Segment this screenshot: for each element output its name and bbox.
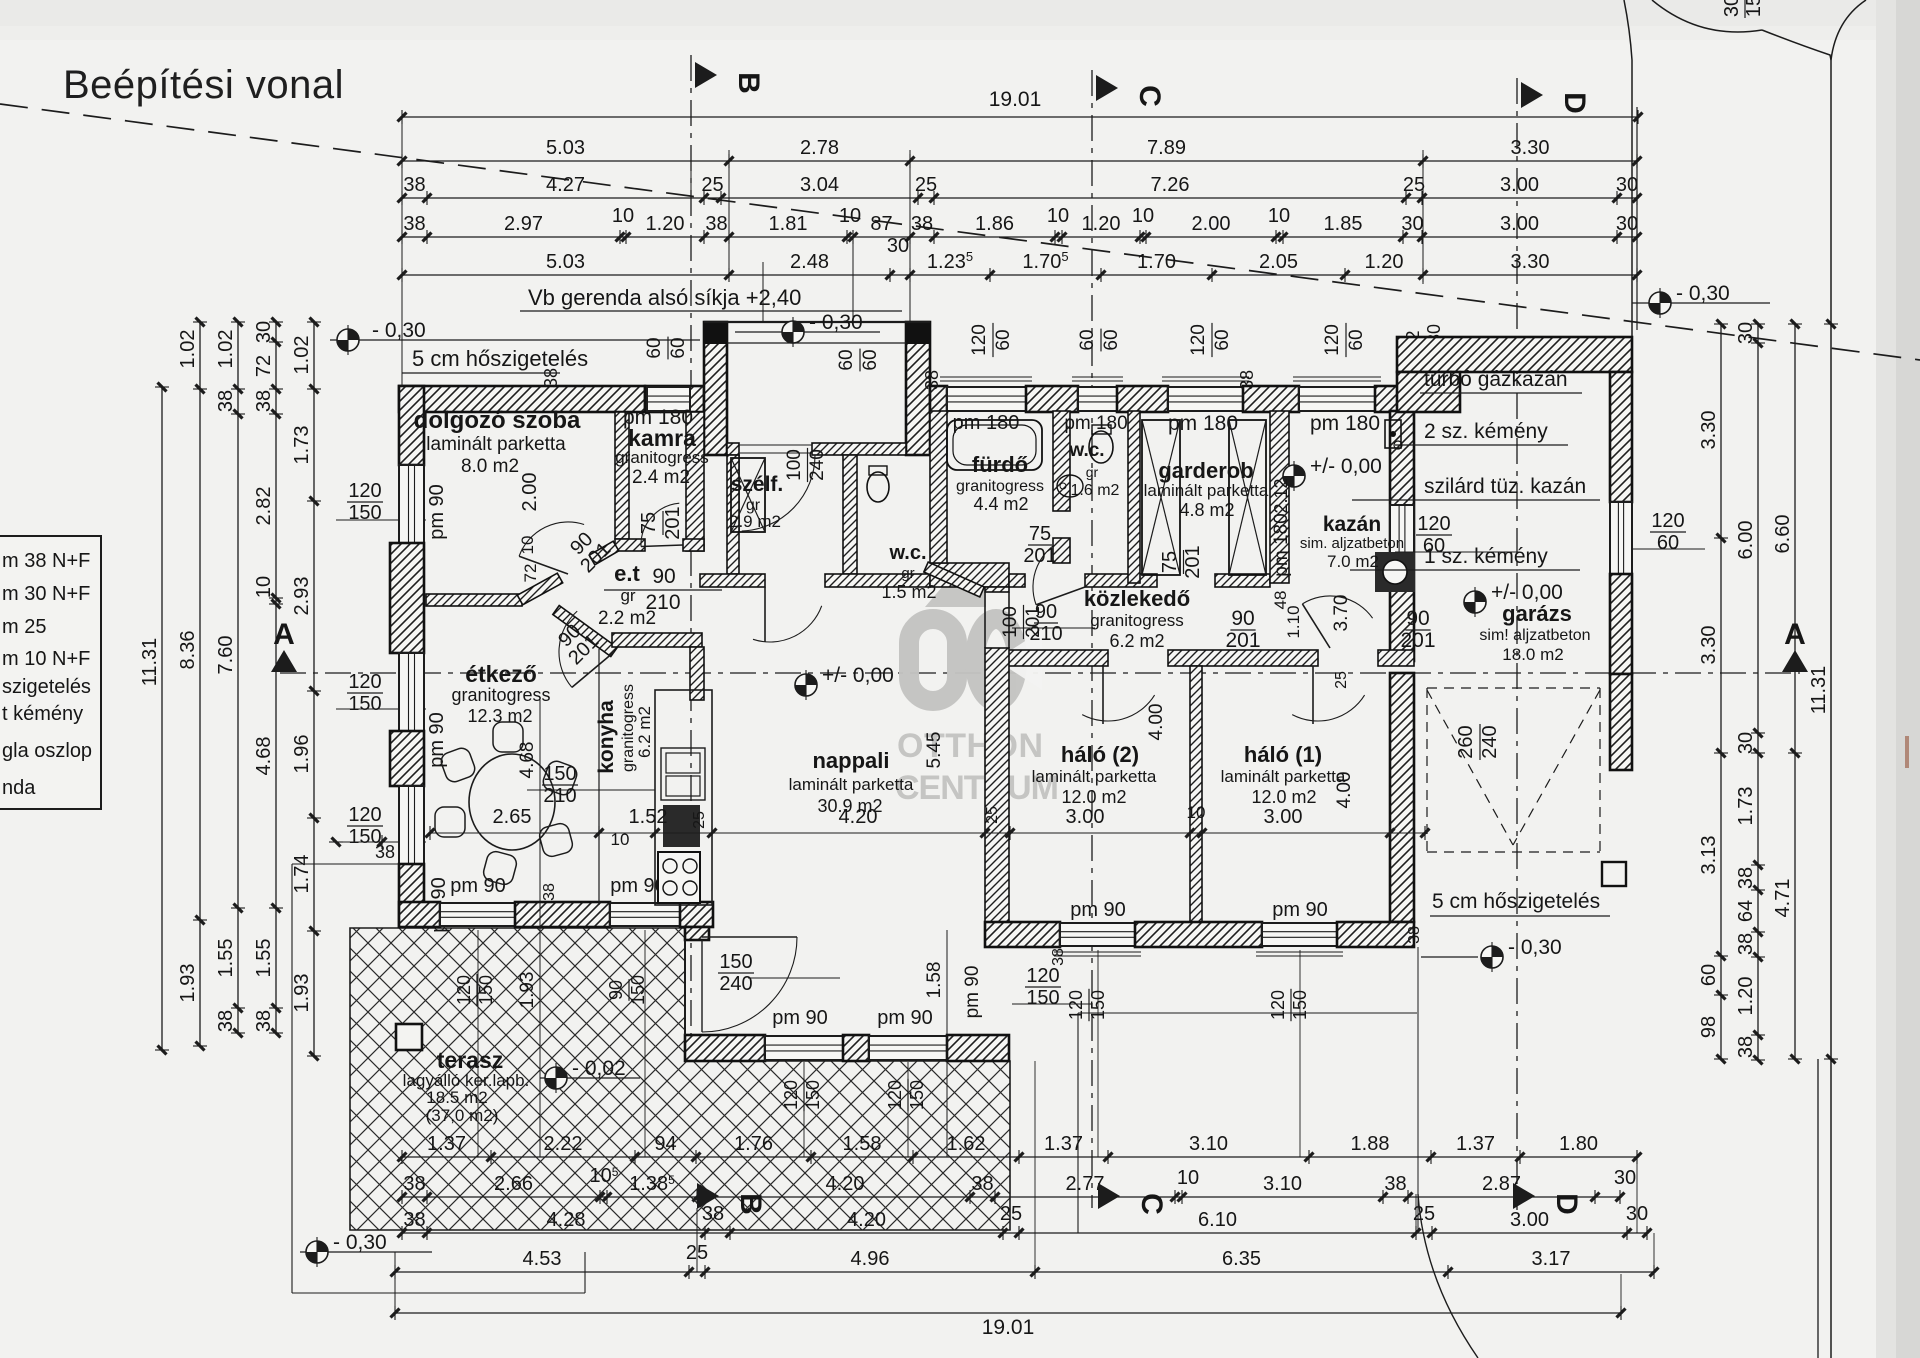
svg-text:2.00: 2.00 <box>1192 213 1231 235</box>
bottom dimension row 2 <box>402 1196 1620 1198</box>
svg-text:sim! aljzatbeton: sim! aljzatbeton <box>1479 627 1590 644</box>
svg-text:garázs: garázs <box>1502 601 1572 626</box>
fürdő - wc partition <box>1053 411 1070 511</box>
svg-text:+/- 0,00: +/- 0,00 <box>822 664 894 687</box>
svg-text:gr: gr <box>620 586 635 605</box>
svg-text:10: 10 <box>1268 205 1290 227</box>
right long boundary line <box>1830 60 1832 1358</box>
svg-text:étkező: étkező <box>465 661 537 687</box>
svg-text:10: 10 <box>1187 803 1206 822</box>
svg-text:120: 120 <box>348 671 381 693</box>
garage east wall upper <box>1610 372 1632 502</box>
etkezo height dim 4.68 <box>539 700 541 1157</box>
svg-text:laminált parketta: laminált parketta <box>789 775 914 794</box>
svg-text:+/- 0,00: +/- 0,00 <box>1491 581 1563 604</box>
svg-text:pm 90: pm 90 <box>962 966 983 1019</box>
svg-text:94: 94 <box>654 1133 676 1155</box>
svg-text:60: 60 <box>1346 329 1367 350</box>
svg-text:dolgozó szoba: dolgozó szoba <box>414 407 581 434</box>
garage south-east corner cap <box>1602 862 1626 886</box>
svg-text:201: 201 <box>1225 629 1260 652</box>
svg-text:25: 25 <box>1403 174 1425 196</box>
road curve top right 2 <box>1762 30 1831 60</box>
svg-text:nappali: nappali <box>812 748 889 773</box>
svg-text:pm 180: pm 180 <box>1310 412 1380 435</box>
level marker -0.30 backyard <box>1421 956 1478 958</box>
svg-text:pm 180: pm 180 <box>1064 413 1127 434</box>
svg-text:3.13: 3.13 <box>1698 836 1720 875</box>
level marker 0.00 nappali <box>795 674 817 696</box>
svg-text:1.37: 1.37 <box>1044 1133 1083 1155</box>
svg-text:4.53: 4.53 <box>523 1248 562 1270</box>
svg-text:OTTHON: OTTHON <box>897 727 1044 765</box>
road curve top right 1 <box>1652 0 1762 32</box>
svg-text:1.86: 1.86 <box>975 213 1014 235</box>
svg-text:w.c.: w.c. <box>888 542 926 564</box>
svg-text:1.70: 1.70 <box>1137 251 1176 273</box>
svg-text:D: D <box>1550 1193 1583 1215</box>
svg-text:150: 150 <box>1026 987 1059 1009</box>
svg-text:B: B <box>734 1193 767 1215</box>
svg-text:10: 10 <box>253 576 275 598</box>
svg-text:2.97: 2.97 <box>504 213 543 235</box>
top dimension row 5.03 2.78 7.89 3.30 <box>402 160 1637 162</box>
wall between szelf and wc <box>843 455 857 574</box>
svg-text:60: 60 <box>1101 329 1122 350</box>
section marker D top <box>1521 82 1543 108</box>
kozlekedo south wall (H2) <box>1005 650 1108 666</box>
svg-text:háló (2): háló (2) <box>1061 742 1139 767</box>
svg-text:3.04: 3.04 <box>800 174 839 196</box>
svg-text:D: D <box>1558 92 1591 114</box>
svg-text:5 cm hőszigetelés: 5 cm hőszigetelés <box>412 346 588 371</box>
fürdő bathtub <box>947 420 1042 470</box>
svg-text:10: 10 <box>839 205 861 227</box>
svg-text:3.17: 3.17 <box>1532 1248 1571 1270</box>
left dimension column 7.60 <box>237 322 239 1033</box>
svg-text:Vb gerenda alsó síkja +2,40: Vb gerenda alsó síkja +2,40 <box>528 285 801 310</box>
svg-text:150: 150 <box>543 763 576 785</box>
svg-text:1.58: 1.58 <box>843 1133 882 1155</box>
svg-text:2.65: 2.65 <box>493 806 532 828</box>
svg-text:1.37: 1.37 <box>1456 1133 1495 1155</box>
kitchen counter <box>655 690 712 905</box>
section marker B bottom <box>697 1183 719 1209</box>
middle horizontal wall (H1) segments <box>700 574 765 587</box>
svg-text:5 cm hőszigetelés: 5 cm hőszigetelés <box>1432 890 1600 913</box>
svg-text:laminált parketta: laminált parketta <box>1144 481 1269 500</box>
svg-text:2.12: 2.12 <box>1271 478 1291 513</box>
svg-text:7.89: 7.89 <box>1147 137 1186 159</box>
section marker D bottom <box>1513 1183 1535 1209</box>
svg-text:1.10: 1.10 <box>1284 605 1303 638</box>
svg-text:1.93: 1.93 <box>517 972 538 1009</box>
left dimension column 1.73 2.93 1.96 1.74 1.93 <box>313 322 315 1056</box>
svg-text:60: 60 <box>1423 535 1445 557</box>
svg-text:75: 75 <box>1029 523 1051 545</box>
svg-text:30: 30 <box>1721 0 1743 17</box>
svg-text:150: 150 <box>628 975 648 1005</box>
svg-text:18.0 m2: 18.0 m2 <box>1502 645 1563 664</box>
svg-text:1.37: 1.37 <box>427 1133 466 1155</box>
svg-text:210: 210 <box>543 785 576 807</box>
svg-text:120: 120 <box>1066 990 1086 1020</box>
svg-text:4.71: 4.71 <box>1772 879 1794 918</box>
nappali height dim 5.45 / 1.58 <box>946 930 948 1157</box>
svg-text:38: 38 <box>1735 1036 1757 1058</box>
svg-text:granitogress: granitogress <box>451 685 550 705</box>
top dimension row 19.01 <box>402 116 1638 118</box>
svg-text:201: 201 <box>662 506 684 539</box>
svg-text:210: 210 <box>1029 623 1062 645</box>
svg-text:90: 90 <box>606 980 626 1000</box>
svg-text:4.20: 4.20 <box>847 1209 886 1231</box>
window axis lines below <box>477 930 479 1157</box>
svg-text:1.93: 1.93 <box>177 964 199 1003</box>
svg-text:10: 10 <box>1132 205 1154 227</box>
garderob closet X-box west <box>1142 420 1180 575</box>
porch left pillar <box>704 322 727 455</box>
szelf entrance door arc <box>738 455 740 531</box>
svg-text:szigetelés: szigetelés <box>2 676 91 698</box>
svg-text:87: 87 <box>870 213 892 235</box>
house west wall segments with windows <box>399 386 424 465</box>
svg-text:38: 38 <box>253 1010 275 1032</box>
svg-text:18.5 m2: 18.5 m2 <box>426 1088 487 1107</box>
svg-text:w.c.: w.c. <box>1068 440 1104 461</box>
garage north wall <box>1397 337 1632 372</box>
svg-text:7.60: 7.60 <box>215 636 237 675</box>
svg-text:gr: gr <box>901 565 914 582</box>
wc toilet lower (1.5m2) <box>867 472 889 502</box>
house exterior wall north-west top <box>399 386 645 412</box>
section marker B top <box>695 62 717 88</box>
svg-text:260: 260 <box>1455 725 1477 758</box>
bottom dimension row 3 <box>402 1232 1647 1234</box>
svg-text:38: 38 <box>375 842 395 862</box>
svg-text:120: 120 <box>348 804 381 826</box>
terrace pillar white square <box>396 1024 422 1050</box>
scan edge shading right <box>1876 0 1920 1358</box>
svg-text:38: 38 <box>403 174 425 196</box>
wc15 door arc <box>1033 539 1066 605</box>
svg-text:7.26: 7.26 <box>1151 174 1190 196</box>
svg-text:C: C <box>1135 1193 1168 1215</box>
svg-text:nda: nda <box>2 777 36 799</box>
svg-text:4.96: 4.96 <box>851 1248 890 1270</box>
svg-text:1.20: 1.20 <box>1735 977 1757 1016</box>
nappali east / halo2 west wall <box>985 648 1009 922</box>
bedroom south wall with windows <box>985 922 1060 947</box>
svg-text:4.27: 4.27 <box>546 174 585 196</box>
bedroom south window sills <box>1054 951 1141 953</box>
etkezo-nappali wall piece <box>612 633 702 647</box>
svg-text:3.00: 3.00 <box>1264 806 1303 828</box>
nappali west upper wall <box>690 647 704 700</box>
bottom extension lines <box>291 864 293 1293</box>
svg-text:150: 150 <box>348 502 381 524</box>
terrace door arc 150/240 <box>702 937 797 1032</box>
svg-text:4.4 m2: 4.4 m2 <box>973 494 1028 514</box>
svg-text:38: 38 <box>1735 933 1757 955</box>
svg-text:90: 90 <box>1406 607 1429 630</box>
svg-text:38: 38 <box>215 390 237 412</box>
entry diagonal wall SE <box>553 606 617 657</box>
svg-text:granitogress: granitogress <box>615 448 709 467</box>
right dimension column 6.60 4.71 <box>1794 324 1796 1059</box>
kamra window pm180 top <box>645 386 704 412</box>
svg-text:1.85: 1.85 <box>1324 213 1363 235</box>
svg-text:2.78: 2.78 <box>800 137 839 159</box>
bedrooms partition wall <box>1190 666 1202 922</box>
section line B <box>690 55 692 1208</box>
kazan chimney small <box>1385 420 1401 448</box>
level marker -0.30 top left <box>330 339 700 341</box>
svg-text:3.70: 3.70 <box>1331 595 1352 632</box>
kitchen sink <box>661 748 705 800</box>
svg-text:2.00: 2.00 <box>519 473 541 512</box>
dolgozo szoba - kamra partition <box>615 412 629 539</box>
svg-text:konyha: konyha <box>595 700 618 774</box>
svg-text:60: 60 <box>1657 532 1679 554</box>
svg-text:38: 38 <box>215 1010 237 1032</box>
section line C <box>1091 70 1093 1208</box>
svg-text:30: 30 <box>1614 1167 1636 1189</box>
svg-text:10: 10 <box>611 830 630 849</box>
svg-text:30: 30 <box>1735 322 1757 344</box>
fürdő west wall <box>930 411 947 563</box>
svg-text:30: 30 <box>887 235 909 257</box>
svg-text:szilárd tüz. kazán: szilárd tüz. kazán <box>1424 475 1586 498</box>
svg-text:1.88: 1.88 <box>1351 1133 1390 1155</box>
svg-text:120: 120 <box>1188 324 1209 356</box>
road curve bottom right <box>1418 1194 1478 1358</box>
svg-text:60: 60 <box>860 349 881 370</box>
svg-text:1.76: 1.76 <box>734 1133 773 1155</box>
svg-text:10: 10 <box>1177 1167 1199 1189</box>
svg-text:38: 38 <box>403 1209 425 1231</box>
right dimension column 3.30/3.30/3.13 <box>1720 324 1722 1059</box>
svg-text:11.31: 11.31 <box>1808 666 1830 715</box>
svg-text:sim. aljzatbeton: sim. aljzatbeton <box>1300 535 1404 552</box>
svg-text:25: 25 <box>1333 671 1350 689</box>
svg-text:1.52: 1.52 <box>629 806 668 828</box>
svg-text:38: 38 <box>541 883 558 901</box>
chamfer wall wc-nappali <box>924 562 984 597</box>
svg-text:38: 38 <box>1050 948 1067 966</box>
svg-text:- 0,30: - 0,30 <box>809 311 863 334</box>
szelf side walls <box>727 455 739 574</box>
svg-text:120: 120 <box>1026 965 1059 987</box>
etkezo table <box>469 754 555 850</box>
right dimension column 11.31 <box>1824 323 1838 325</box>
svg-text:150: 150 <box>476 975 496 1005</box>
entry door arc 90/201 upper <box>519 522 584 556</box>
svg-text:38: 38 <box>702 1203 724 1225</box>
svg-text:2.05: 2.05 <box>1259 251 1298 273</box>
svg-text:8.0 m2: 8.0 m2 <box>461 456 519 477</box>
svg-text:4.68: 4.68 <box>517 742 538 779</box>
svg-text:5.03: 5.03 <box>546 251 585 273</box>
section line A-A <box>280 672 1800 674</box>
svg-text:1.81: 1.81 <box>769 213 808 235</box>
road kerb curve top right 3 <box>1831 0 1866 60</box>
svg-text:4.8 m2: 4.8 m2 <box>1179 500 1234 520</box>
svg-text:garderob: garderob <box>1158 458 1253 483</box>
svg-text:60: 60 <box>1212 329 1233 350</box>
svg-text:C: C <box>1133 85 1166 107</box>
svg-text:3.30: 3.30 <box>1698 626 1720 665</box>
svg-text:60: 60 <box>1698 964 1720 986</box>
svg-text:12.3 m2: 12.3 m2 <box>467 706 532 726</box>
svg-text:19.01: 19.01 <box>989 88 1042 111</box>
svg-text:3.00: 3.00 <box>1510 1209 1549 1231</box>
svg-text:38: 38 <box>705 213 727 235</box>
svg-text:10: 10 <box>1047 205 1069 227</box>
svg-text:laminált parketta: laminált parketta <box>426 434 566 455</box>
dolgozo south wall <box>426 594 522 606</box>
svg-text:38: 38 <box>403 213 425 235</box>
svg-text:240: 240 <box>1479 725 1501 758</box>
svg-text:- 0,30: - 0,30 <box>1676 282 1730 305</box>
svg-text:11.31: 11.31 <box>139 638 161 687</box>
svg-text:150: 150 <box>1290 990 1310 1020</box>
svg-text:201: 201 <box>1023 545 1056 567</box>
svg-text:3.00: 3.00 <box>1066 806 1105 828</box>
svg-text:72: 72 <box>253 355 275 377</box>
garderob - kazan partition <box>1270 411 1289 583</box>
svg-text:38: 38 <box>541 368 561 388</box>
svg-text:gla oszlop: gla oszlop <box>2 740 92 762</box>
svg-text:pm 90: pm 90 <box>450 875 506 897</box>
left dimension column 11.31 <box>161 387 163 1050</box>
svg-text:30: 30 <box>1616 174 1638 196</box>
svg-text:38: 38 <box>911 213 933 235</box>
top dimension row 5.03 2.48 ... <box>402 274 1637 276</box>
svg-text:turbó gázkazán: turbó gázkazán <box>1424 368 1568 391</box>
svg-text:75: 75 <box>638 512 660 534</box>
svg-text:3.00: 3.00 <box>1500 174 1539 196</box>
svg-text:150: 150 <box>803 1080 823 1110</box>
svg-text:2.82: 2.82 <box>253 487 275 526</box>
top dimension row 2.97 1.20 1.81 ... <box>402 236 1637 238</box>
svg-text:30: 30 <box>1735 732 1757 754</box>
svg-text:60: 60 <box>993 329 1014 350</box>
wc - garderob partition <box>1128 411 1140 583</box>
svg-text:120: 120 <box>348 480 381 502</box>
svg-text:201: 201 <box>1182 545 1204 578</box>
svg-text:1.58: 1.58 <box>924 962 945 999</box>
svg-text:laminált parketta: laminált parketta <box>1221 767 1346 786</box>
svg-text:4.28: 4.28 <box>547 1209 586 1231</box>
svg-text:4.20: 4.20 <box>839 806 878 828</box>
svg-text:5.45: 5.45 <box>924 732 945 769</box>
entry door arc 90/201 lower <box>559 611 577 687</box>
svg-text:m 38 N+F: m 38 N+F <box>2 550 90 572</box>
svg-text:6.60: 6.60 <box>1772 515 1794 554</box>
svg-text:120: 120 <box>1268 990 1288 1020</box>
svg-text:- 0,30: - 0,30 <box>372 319 426 342</box>
svg-text:6.10: 6.10 <box>1198 1209 1237 1231</box>
svg-text:150: 150 <box>719 951 752 973</box>
section marker C top <box>1096 75 1118 101</box>
svg-text:25: 25 <box>1000 1203 1022 1225</box>
svg-text:1.55: 1.55 <box>253 939 275 978</box>
svg-text:2.22: 2.22 <box>544 1133 583 1155</box>
bottom dimension row 5 19.01 <box>395 1312 1621 1314</box>
terrace cross-hatched area <box>350 928 1010 1230</box>
svg-text:laminált parketta: laminált parketta <box>1032 767 1157 786</box>
svg-text:10: 10 <box>612 205 634 227</box>
svg-text:120: 120 <box>885 1080 905 1110</box>
nappali east wall upper <box>985 587 1009 592</box>
svg-text:75: 75 <box>1159 551 1181 573</box>
svg-text:pm 90: pm 90 <box>426 484 448 540</box>
porch right pillar <box>906 322 930 455</box>
section line D <box>1516 78 1518 1210</box>
svg-text:1.02: 1.02 <box>215 330 237 369</box>
wc toilet upper <box>1089 431 1113 463</box>
svg-text:fürdő: fürdő <box>972 452 1028 477</box>
house north wall right part with windows <box>930 386 947 412</box>
garderob closet X-box east <box>1229 420 1266 575</box>
svg-text:Beépítési vonal: Beépítési vonal <box>63 63 344 107</box>
right dimension column 6.00 group <box>1757 324 1759 1060</box>
svg-text:38: 38 <box>1384 1173 1406 1195</box>
svg-text:100: 100 <box>1000 606 1021 638</box>
svg-text:pm 180: pm 180 <box>1168 412 1238 435</box>
svg-text:háló (1): háló (1) <box>1244 742 1322 767</box>
svg-text:1.80: 1.80 <box>1559 1133 1598 1155</box>
kitchen dark appliance <box>663 805 700 847</box>
svg-text:1.20: 1.20 <box>646 213 685 235</box>
svg-text:pm 180: pm 180 <box>1271 513 1292 576</box>
kamra east wall <box>686 412 704 551</box>
level marker -0.30 top right <box>1632 302 1770 304</box>
svg-text:szélf.: szélf. <box>731 473 784 496</box>
svg-text:3.00: 3.00 <box>1500 213 1539 235</box>
svg-text:3.10: 3.10 <box>1189 1133 1228 1155</box>
svg-text:90: 90 <box>1035 601 1057 623</box>
svg-text:e.t: e.t <box>614 561 640 586</box>
svg-text:m 25: m 25 <box>2 616 46 638</box>
legend box (clipped at left edge) <box>0 536 101 809</box>
svg-text:150: 150 <box>907 1080 927 1110</box>
svg-text:72: 72 <box>521 564 540 583</box>
svg-text:pm 90: pm 90 <box>1070 899 1126 921</box>
svg-text:1.02: 1.02 <box>177 330 199 369</box>
svg-text:2.4 m2: 2.4 m2 <box>632 467 690 488</box>
svg-text:3.10: 3.10 <box>1263 1173 1302 1195</box>
kamra south wall <box>615 539 645 551</box>
svg-text:3.30: 3.30 <box>1698 411 1720 450</box>
svg-text:granitogress: granitogress <box>1090 611 1184 630</box>
left dimension column 4.68 <box>275 322 277 1033</box>
bottom dimension row 4 <box>395 1271 1654 1273</box>
svg-text:25: 25 <box>691 811 708 829</box>
level marker -0.30 porch <box>735 331 880 333</box>
svg-text:38: 38 <box>403 1173 425 1195</box>
svg-text:2.66: 2.66 <box>494 1173 533 1195</box>
svg-text:pm 90: pm 90 <box>772 1007 828 1029</box>
svg-text:4.00: 4.00 <box>1146 704 1167 741</box>
kazan boiler <box>1375 552 1415 592</box>
svg-text:2.48: 2.48 <box>790 251 829 273</box>
svg-text:gr: gr <box>1086 464 1099 480</box>
svg-text:30: 30 <box>253 321 275 343</box>
nappali south wall with windows <box>685 1035 765 1061</box>
svg-text:120: 120 <box>1417 513 1450 535</box>
